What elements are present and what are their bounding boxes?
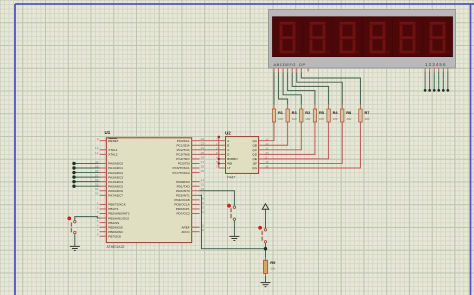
resistor R9 10k xyxy=(264,258,268,276)
wire R7 to U2 output 7 xyxy=(264,127,360,168)
svg-text:PC5/TDI: PC5/TDI xyxy=(178,162,190,166)
wire button1 to ground xyxy=(74,234,76,246)
svg-text:15: 15 xyxy=(201,183,205,187)
svg-text:PC0/SCL: PC0/SCL xyxy=(177,139,190,143)
svg-text:11: 11 xyxy=(265,146,268,150)
svg-text:2: 2 xyxy=(97,205,99,209)
svg-text:+: + xyxy=(438,85,440,88)
svg-text:25: 25 xyxy=(201,151,205,155)
svg-text:LT: LT xyxy=(227,166,230,170)
svg-text:3: 3 xyxy=(97,210,99,214)
svg-text:PB5/MOSI: PB5/MOSI xyxy=(108,225,123,229)
svg-text:PD0/RXD: PD0/RXD xyxy=(176,180,190,184)
wire R1 to U2 output 1 xyxy=(264,127,274,141)
svg-text:R1: R1 xyxy=(278,110,284,115)
display digit 4 xyxy=(370,22,390,54)
push button 2 xyxy=(227,204,235,221)
svg-text:3: 3 xyxy=(216,165,218,169)
microcontroller U1 ATMEGA32 body xyxy=(106,138,191,243)
svg-text:100: 100 xyxy=(319,117,324,121)
ground (button1) xyxy=(70,246,80,250)
svg-text:123456: 123456 xyxy=(425,62,447,67)
svg-text:U1: U1 xyxy=(105,130,111,135)
svg-text:PD5/OC1A: PD5/OC1A xyxy=(174,203,190,207)
svg-text:22: 22 xyxy=(201,137,205,141)
svg-text:PB1/T1: PB1/T1 xyxy=(108,207,119,211)
svg-text:PB0/T0/XCK: PB0/T0/XCK xyxy=(108,203,126,207)
wire U2 control pins tie (BI/RBO,RBI,LT) xyxy=(218,136,221,168)
U1 pin stubs xyxy=(100,141,200,237)
svg-text:PA3/ADC3: PA3/ADC3 xyxy=(108,175,123,179)
svg-text:PD4/OC1B: PD4/OC1B xyxy=(174,198,189,202)
resistor R2 100 xyxy=(300,105,303,127)
svg-text:5: 5 xyxy=(97,219,99,223)
svg-text:QG: QG xyxy=(252,166,257,170)
svg-text:PA5/ADC5: PA5/ADC5 xyxy=(108,184,123,188)
svg-text:RBI: RBI xyxy=(227,162,232,166)
svg-text:XTAL2: XTAL2 xyxy=(108,153,118,157)
svg-text:R4: R4 xyxy=(333,110,339,115)
wire R9 to ground xyxy=(265,276,267,282)
label R1 xyxy=(278,110,284,121)
svg-text:100: 100 xyxy=(278,117,283,121)
resistor R4 100 xyxy=(327,105,330,127)
display digit separators xyxy=(303,17,423,57)
resistor R7 100 xyxy=(359,105,362,127)
svg-text:PC1/SDA: PC1/SDA xyxy=(176,143,190,147)
display segment pin labels ABCDEFG DP xyxy=(274,62,306,67)
svg-text:27: 27 xyxy=(201,160,205,164)
display digit-select pins 1-6 with wire stubs and node dots xyxy=(419,68,449,92)
svg-text:PD6/ICP1: PD6/ICP1 xyxy=(176,207,190,211)
resistor R5 100 xyxy=(313,105,316,127)
svg-text:PA1/ADC1: PA1/ADC1 xyxy=(108,166,123,170)
svg-text:U2: U2 xyxy=(225,131,231,136)
7-segment display DS1 frame xyxy=(269,10,456,69)
svg-text:BI/RBO: BI/RBO xyxy=(227,157,238,161)
display pins A-G and DP xyxy=(274,68,308,73)
label R3 xyxy=(292,110,298,121)
wire power to button3 xyxy=(265,209,267,229)
U2 pin names and numbers xyxy=(216,137,269,170)
wire U1 PD3 to node xyxy=(200,195,266,248)
resistor R8 100 xyxy=(341,105,344,127)
svg-text:15: 15 xyxy=(265,160,269,164)
wire U1 PD2 to button2 xyxy=(200,191,235,206)
resistor R1 100 xyxy=(272,105,275,127)
svg-text:10: 10 xyxy=(265,151,269,155)
svg-text:R2: R2 xyxy=(305,110,311,115)
svg-text:14: 14 xyxy=(201,178,205,182)
wire button1 to U1 PB3 xyxy=(75,217,100,221)
svg-text:100: 100 xyxy=(346,117,351,121)
display digit 3 xyxy=(340,22,360,54)
label R7 xyxy=(364,110,369,121)
svg-text:QF: QF xyxy=(253,162,257,166)
svg-text:PD2/INT0: PD2/INT0 xyxy=(176,189,190,193)
svg-text:QB: QB xyxy=(253,143,257,147)
label R9 xyxy=(270,260,276,270)
svg-text:PB4/SS: PB4/SS xyxy=(108,221,119,225)
svg-text:RESET: RESET xyxy=(108,139,118,143)
wire U1 PC3 to U2 D xyxy=(200,153,219,155)
svg-text:7: 7 xyxy=(97,228,99,232)
svg-text:+: + xyxy=(433,72,435,75)
svg-text:PA7/ADC7: PA7/ADC7 xyxy=(108,194,123,198)
svg-text:8: 8 xyxy=(97,233,99,237)
svg-text:PB6/MISO: PB6/MISO xyxy=(108,230,123,234)
svg-text:AVCC: AVCC xyxy=(181,230,190,234)
svg-text:6: 6 xyxy=(97,224,99,228)
svg-text:R3: R3 xyxy=(292,110,298,115)
label R5 xyxy=(319,110,325,121)
svg-text:12: 12 xyxy=(95,151,99,155)
svg-text:100: 100 xyxy=(333,117,338,121)
svg-text:R8: R8 xyxy=(346,110,352,115)
label R8 xyxy=(346,110,352,121)
svg-text:PA2/ADC2: PA2/ADC2 xyxy=(108,171,123,175)
svg-text:PA0/ADC0: PA0/ADC0 xyxy=(108,162,123,166)
svg-text:28: 28 xyxy=(201,164,205,168)
svg-text:7447: 7447 xyxy=(227,175,237,180)
node dot (button3/R9/PD3) xyxy=(264,247,267,250)
label 7447 xyxy=(227,175,237,180)
wire display pin G to resistor column 7 xyxy=(301,73,360,105)
wire R3 to U2 output 2 xyxy=(264,127,288,146)
push button 1 xyxy=(67,217,76,234)
U1 pin names and numbers xyxy=(95,137,204,238)
svg-text:PC2/TCK: PC2/TCK xyxy=(177,148,191,152)
svg-text:PB2/AIN0/INT2: PB2/AIN0/INT2 xyxy=(108,212,129,216)
display digit labels 123456 xyxy=(425,62,447,67)
display digit 5 xyxy=(400,22,420,54)
resistor R3 100 xyxy=(286,105,289,127)
display DS1 screen xyxy=(273,17,453,57)
svg-text:1: 1 xyxy=(97,201,99,205)
wire U1 PC1 to U2 B xyxy=(200,144,219,146)
svg-text:10k: 10k xyxy=(270,267,275,271)
label ATMEGA32 xyxy=(107,245,125,249)
svg-text:26: 26 xyxy=(201,155,205,159)
svg-text:PB7/SCK: PB7/SCK xyxy=(108,234,122,238)
svg-text:PD3/INT1: PD3/INT1 xyxy=(176,194,190,198)
svg-text:PC4/TDO: PC4/TDO xyxy=(176,157,190,161)
svg-text:PC6/TOSC1: PC6/TOSC1 xyxy=(173,166,190,170)
svg-text:R5: R5 xyxy=(319,110,325,115)
svg-text:R7: R7 xyxy=(364,110,369,115)
svg-text:PD7/OC2: PD7/OC2 xyxy=(176,212,190,216)
svg-text:100: 100 xyxy=(292,117,297,121)
svg-text:QC: QC xyxy=(252,148,257,152)
svg-text:13: 13 xyxy=(95,146,99,150)
wires and node dots on U1 PA0-PA5 xyxy=(72,162,99,188)
ground (R9) xyxy=(261,283,271,287)
svg-text:PD1/TXD: PD1/TXD xyxy=(177,184,191,188)
svg-text:100: 100 xyxy=(305,117,310,121)
wire R5 to U2 output 4 xyxy=(264,127,315,155)
svg-text:ATMEGA32: ATMEGA32 xyxy=(107,245,125,249)
svg-text:B: B xyxy=(227,143,229,147)
wire display pin F to resistor column 6 xyxy=(297,73,343,105)
svg-text:AREF: AREF xyxy=(181,225,189,229)
svg-text:9: 9 xyxy=(97,137,99,141)
svg-text:PA6/ADC6: PA6/ADC6 xyxy=(108,189,123,193)
svg-text:100: 100 xyxy=(364,117,369,121)
label U2 xyxy=(225,131,231,136)
svg-text:33: 33 xyxy=(95,192,99,196)
wire display pin A to R1 xyxy=(273,73,275,105)
wire R2 to U2 output 3 xyxy=(264,127,301,150)
display digit 1 xyxy=(280,22,300,54)
wire button3 to node xyxy=(265,243,267,257)
svg-text:QD: QD xyxy=(252,153,257,157)
wire display pin D to resistor column 4 xyxy=(288,73,315,105)
wire display pin B to resistor column 2 xyxy=(279,73,288,105)
wire R8 to U2 output 6 xyxy=(264,127,342,164)
display digit 6 xyxy=(430,22,450,54)
wire U1 PC2 to U2 C xyxy=(200,149,219,151)
label R2 xyxy=(305,110,311,121)
svg-text:24: 24 xyxy=(201,146,205,150)
display digit 2 xyxy=(310,22,330,54)
svg-text:QE: QE xyxy=(253,157,257,161)
svg-text:PC3/TMS: PC3/TMS xyxy=(176,153,189,157)
label R4 xyxy=(333,110,339,121)
svg-text:R9: R9 xyxy=(270,260,276,265)
svg-text:14: 14 xyxy=(265,165,269,169)
wire R4 to U2 output 5 xyxy=(264,127,329,159)
label U1 xyxy=(105,130,111,135)
svg-text:ABCDEFG DP: ABCDEFG DP xyxy=(274,62,306,67)
svg-text:PB3/AIN1/OC0: PB3/AIN1/OC0 xyxy=(108,216,129,220)
svg-text:12: 12 xyxy=(265,142,269,146)
power symbol (+V arrow) xyxy=(262,204,268,209)
svg-text:29: 29 xyxy=(201,169,205,173)
wire button2 to ground xyxy=(233,221,235,236)
svg-text:PC7/TOSC2: PC7/TOSC2 xyxy=(173,171,190,175)
svg-text:PA4/ADC4: PA4/ADC4 xyxy=(108,180,123,184)
svg-text:13: 13 xyxy=(265,137,269,141)
svg-text:+: + xyxy=(443,79,445,82)
svg-text:23: 23 xyxy=(201,142,205,146)
wire display pin C to resistor column 3 xyxy=(283,73,301,105)
ground (button2) xyxy=(229,236,239,240)
decoder U2 7447 body xyxy=(226,137,259,174)
svg-text:XTAL1: XTAL1 xyxy=(108,148,118,152)
push button 3 xyxy=(258,226,266,243)
wire U1 PC0 to U2 A xyxy=(200,140,219,142)
svg-text:+: + xyxy=(419,76,421,79)
wire display pin E to resistor column 5 xyxy=(292,73,328,105)
svg-text:34: 34 xyxy=(95,187,99,191)
U2 pin stubs xyxy=(219,141,264,168)
